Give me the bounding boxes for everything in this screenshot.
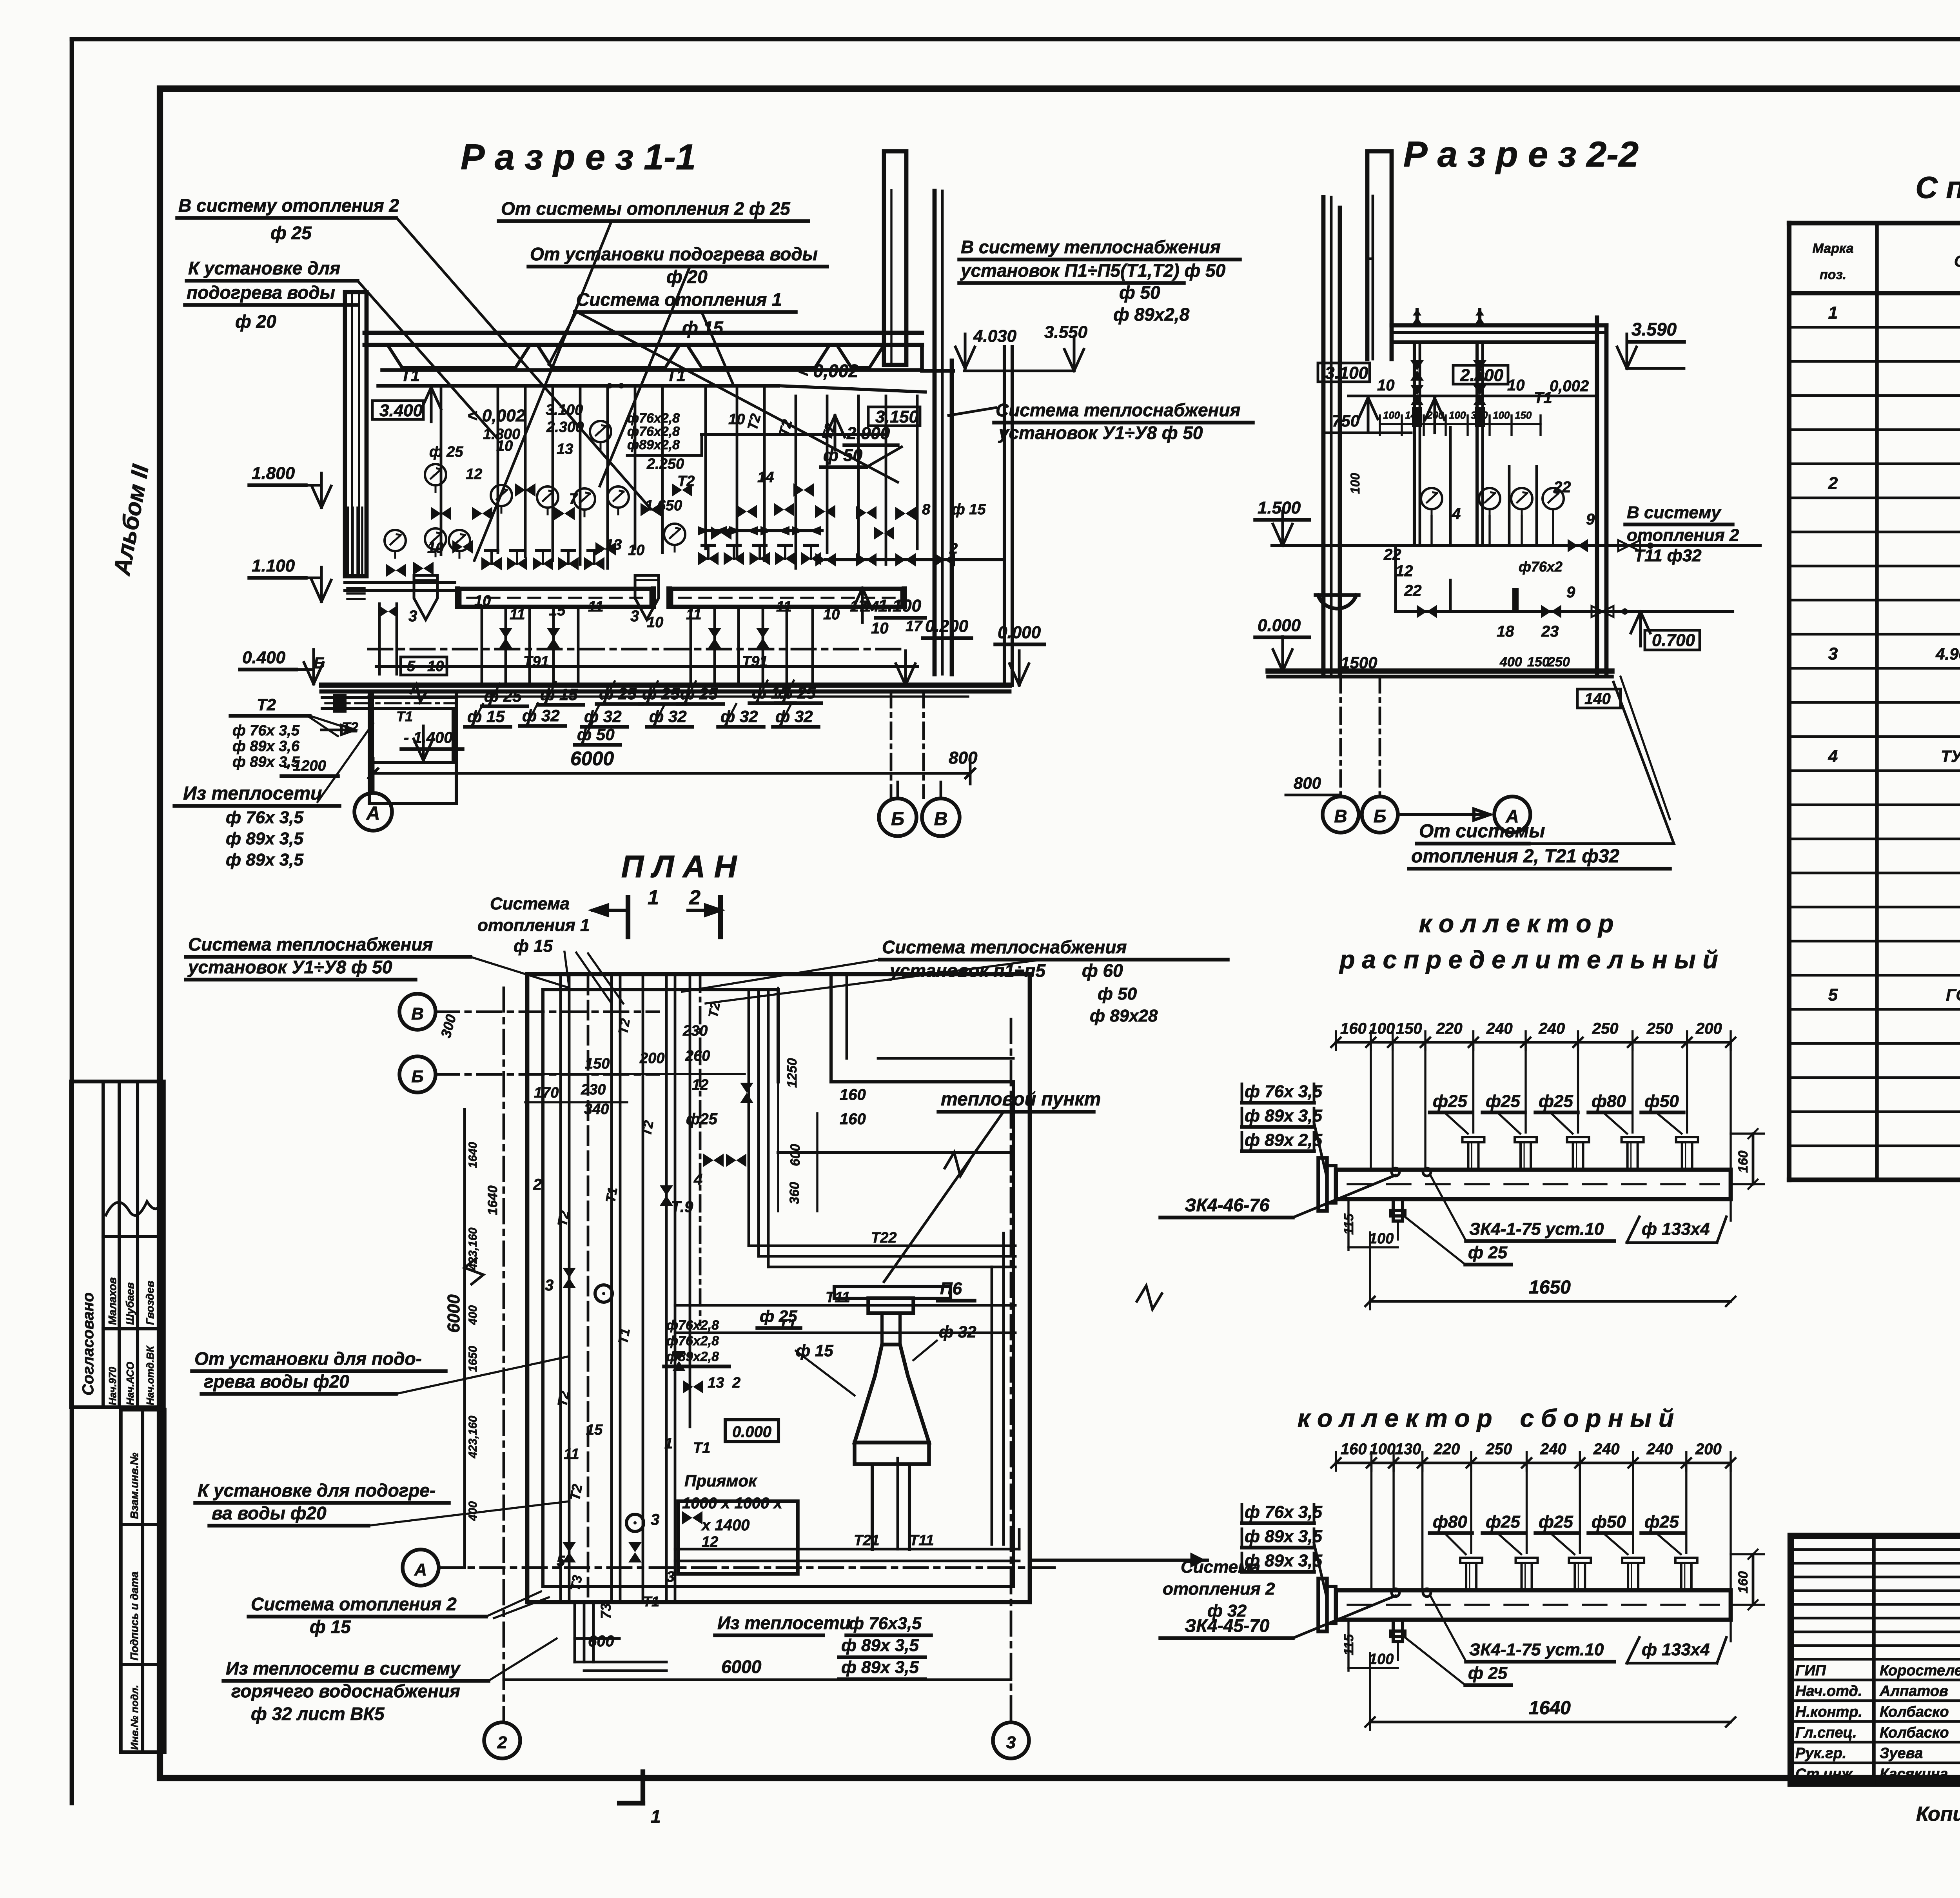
svg-text:ф 76х 3,5: ф 76х 3,5 [226, 808, 303, 827]
svg-text:14: 14 [757, 469, 774, 486]
svg-text:240: 240 [1540, 1441, 1566, 1458]
svg-text:ф 89х2,8: ф 89х2,8 [1113, 304, 1190, 325]
svg-text:ЗК4-45-70: ЗК4-45-70 [1185, 1615, 1270, 1636]
plan bottom exit pipes [575, 1602, 931, 1679]
collector nozzle [1622, 1558, 1644, 1590]
svg-text:230: 230 [581, 1081, 606, 1098]
svg-text:Т11 ф32: Т11 ф32 [1634, 546, 1702, 565]
svg-text:423,160: 423,160 [466, 1415, 479, 1459]
collector nozzle [1460, 1558, 1482, 1590]
valve [472, 507, 492, 520]
svg-text:2: 2 [949, 541, 958, 557]
svg-text:250: 250 [1646, 1020, 1673, 1037]
svg-text:220: 220 [1433, 1441, 1460, 1458]
valve [507, 550, 527, 570]
pressure gauge [425, 464, 446, 492]
svg-text:12: 12 [692, 1077, 708, 1093]
svg-text:ф25: ф25 [1486, 1512, 1520, 1531]
svg-text:1: 1 [1828, 303, 1838, 322]
left inlet pipes [345, 577, 455, 674]
svg-text:73: 73 [598, 1603, 614, 1619]
svg-text:100: 100 [1369, 1651, 1394, 1668]
svg-text:установок У1÷У8 ф 50: установок У1÷У8 ф 50 [187, 957, 392, 977]
svg-text:Взам.инв.№: Взам.инв.№ [128, 1453, 140, 1519]
svg-text:Гл.спец.: Гл.спец. [1795, 1724, 1857, 1741]
svg-text:1650: 1650 [466, 1346, 479, 1372]
valve [856, 553, 877, 566]
pipe header T1 [378, 366, 925, 392]
svg-text:250: 250 [1547, 655, 1570, 670]
axis bubbles section 1-1 [354, 691, 960, 836]
svg-text:Алпатов: Алпатов [1879, 1683, 1948, 1700]
valve row upper [386, 483, 955, 577]
svg-text:ф 20: ф 20 [235, 311, 276, 332]
svg-text:0.700: 0.700 [1652, 631, 1695, 650]
svg-text:ф76х2,8: ф76х2,8 [627, 424, 680, 439]
valve [724, 545, 744, 565]
valve [641, 503, 661, 516]
svg-text:160: 160 [840, 1110, 866, 1128]
svg-text:С п е ц и ф и к а ц и я: С п е ц и ф и к а ц и я [1915, 170, 1960, 205]
title block frame [1791, 1536, 1960, 1784]
svg-text:3: 3 [408, 608, 417, 625]
svg-text:15: 15 [586, 1422, 603, 1438]
svg-text:Нач.отд.ВК: Нач.отд.ВК [144, 1345, 156, 1405]
bottom pipe labels [465, 680, 821, 745]
svg-text:1.100: 1.100 [252, 556, 295, 575]
plan walls [527, 974, 1030, 1602]
svg-text:ф 89х 3,5: ф 89х 3,5 [226, 829, 303, 848]
svg-text:1.500: 1.500 [1258, 498, 1301, 517]
svg-text:В систему: В систему [1627, 503, 1722, 522]
manifold collectors [455, 586, 907, 609]
gauges [385, 421, 685, 558]
svg-text:2: 2 [497, 1733, 507, 1752]
plan vertical pipe bundle [561, 976, 700, 1600]
svg-text:ф 76х3,5: ф 76х3,5 [849, 1614, 922, 1633]
svg-text:Т1: Т1 [1534, 389, 1552, 406]
svg-text:160: 160 [1340, 1020, 1367, 1037]
valve [874, 526, 894, 540]
svg-text:Т2: Т2 [567, 1483, 586, 1502]
collector sborny [1331, 1441, 1735, 1590]
svg-text:17: 17 [906, 618, 923, 635]
svg-text:Р а з р е з 1-1: Р а з р е з 1-1 [461, 137, 696, 177]
svg-text:ф76х2,8: ф76х2,8 [627, 411, 680, 426]
pressure gauge [1511, 488, 1532, 516]
right level dims [821, 407, 1044, 685]
valve [481, 550, 502, 570]
svg-text:отопления 2, Т21 ф32: отопления 2, Т21 ф32 [1411, 846, 1619, 867]
svg-text:250: 250 [1485, 1441, 1512, 1458]
svg-text:Шубаев: Шубаев [124, 1282, 136, 1325]
svg-text:отопления 2: отопления 2 [1627, 526, 1739, 545]
svg-text:Обозначение: Обозначение [1954, 253, 1960, 270]
svg-text:5: 5 [407, 658, 416, 675]
svg-text:подогрева воды: подогрева воды [187, 282, 335, 303]
svg-text:10: 10 [647, 614, 663, 631]
svg-text:6000: 6000 [444, 1294, 463, 1333]
svg-text:3: 3 [630, 608, 639, 625]
svg-text:ф 50: ф 50 [823, 446, 863, 465]
svg-text:1: 1 [648, 886, 659, 909]
svg-text:Нач.970: Нач.970 [107, 1366, 118, 1405]
svg-text:0.000: 0.000 [1258, 616, 1301, 635]
svg-text:0.000: 0.000 [998, 623, 1041, 642]
svg-text:1000 х 1000 х: 1000 х 1000 х [682, 1495, 783, 1512]
svg-text:ф50: ф50 [1592, 1512, 1626, 1531]
svg-text:150: 150 [1515, 409, 1532, 421]
svg-text:В систему теплоснабжения: В систему теплоснабжения [961, 237, 1221, 257]
svg-text:ЗК4-1-75 уст.10: ЗК4-1-75 уст.10 [1469, 1640, 1604, 1659]
svg-text:ф76х2,8: ф76х2,8 [666, 1318, 719, 1333]
underground pipe dashdot [368, 648, 902, 651]
svg-text:600: 600 [588, 1633, 614, 1650]
T2 pipe stack label [230, 695, 341, 776]
svg-text:Согласовано: Согласовано [80, 1292, 97, 1395]
svg-text:Т1: Т1 [603, 1186, 620, 1204]
svg-text:ф76х2,8: ф76х2,8 [666, 1334, 719, 1348]
plan inner labels [485, 988, 976, 1609]
svg-text:ф25: ф25 [1539, 1092, 1573, 1111]
axis bubbles section 2-2 [1286, 677, 1530, 833]
svg-text:ф 89х 3,6: ф 89х 3,6 [232, 738, 300, 755]
valve [815, 505, 835, 518]
valve [895, 553, 916, 566]
svg-text:ф 89х 3,5: ф 89х 3,5 [226, 850, 303, 869]
svg-text:ф 76х 3,5: ф 76х 3,5 [232, 722, 300, 739]
svg-text:ф 50: ф 50 [1119, 282, 1160, 303]
svg-text:ф 25: ф 25 [270, 223, 312, 243]
svg-text:Т11: Т11 [909, 1532, 934, 1549]
svg-text:7: 7 [569, 491, 578, 507]
svg-text:3: 3 [651, 1511, 659, 1528]
svg-text:150: 150 [1527, 655, 1550, 670]
svg-text:р а с п р е д е л и т е л ь н: р а с п р е д е л и т е л ь н ы й [1339, 945, 1718, 974]
right risers pair [826, 347, 1012, 685]
svg-text:ф 89х 3,5: ф 89х 3,5 [1245, 1527, 1322, 1546]
svg-text:ф 133х4: ф 133х4 [1642, 1640, 1710, 1659]
valve [935, 553, 955, 566]
svg-text:2: 2 [1828, 474, 1838, 493]
svg-text:ЗК4-1-75 уст.10: ЗК4-1-75 уст.10 [1469, 1219, 1604, 1239]
svg-text:В: В [411, 1004, 424, 1023]
svg-text:3: 3 [545, 1277, 554, 1294]
svg-text:2: 2 [689, 886, 701, 909]
svg-text:Колбаско: Колбаско [1880, 1704, 1949, 1720]
svg-text:отопления 2: отопления 2 [1163, 1579, 1275, 1599]
svg-text:Т2: Т2 [639, 1120, 656, 1138]
svg-text:Малахов: Малахов [106, 1277, 118, 1325]
svg-text:установок У1÷У8 ф 50: установок У1÷У8 ф 50 [998, 423, 1203, 443]
valve [413, 562, 434, 575]
valve [756, 628, 769, 648]
valve [452, 540, 473, 553]
svg-text:170: 170 [534, 1085, 559, 1101]
pressure gauge [664, 524, 685, 552]
svg-text:П6: П6 [940, 1279, 962, 1298]
svg-text:ТУ26-07-1255-82: ТУ26-07-1255-82 [1941, 747, 1960, 765]
svg-text:ф25: ф25 [1644, 1512, 1679, 1531]
svg-text:В систему отопления 2: В систему отопления 2 [178, 195, 399, 216]
svg-text:3.100: 3.100 [546, 402, 583, 418]
svg-text:В: В [934, 809, 948, 829]
svg-text:К установке для подогре-: К установке для подогре- [198, 1480, 436, 1501]
svg-text:400: 400 [466, 1305, 479, 1325]
spec rows text [1828, 303, 1960, 1174]
valve [698, 545, 719, 565]
svg-text:От системы отопления 2 ф 25: От системы отопления 2 ф 25 [501, 198, 791, 219]
svg-text:6000: 6000 [570, 748, 614, 769]
pressure gauge [425, 528, 446, 556]
zigzag breaks [945, 1152, 970, 1176]
svg-text:0.200: 0.200 [925, 617, 969, 636]
svg-text:100: 100 [1369, 1230, 1394, 1247]
svg-text:Т1: Т1 [693, 1440, 710, 1456]
svg-text:х 1400: х 1400 [701, 1517, 750, 1534]
valve [895, 507, 916, 520]
svg-text:9: 9 [1586, 511, 1595, 528]
svg-text:ф25: ф25 [1539, 1512, 1573, 1531]
valve [499, 628, 512, 648]
svg-text:13: 13 [708, 1375, 724, 1391]
svg-text:< 0,002: < 0,002 [467, 406, 526, 425]
svg-text:160: 160 [1736, 1571, 1751, 1593]
svg-text:ф 15: ф 15 [952, 501, 986, 518]
svg-text:1640: 1640 [466, 1142, 479, 1168]
svg-text:340: 340 [584, 1101, 609, 1118]
svg-text:Гвоздев: Гвоздев [144, 1281, 156, 1325]
svg-text:3.400: 3.400 [379, 401, 423, 420]
svg-text:Коростелев: Коростелев [1880, 1662, 1960, 1679]
svg-text:ф 89х 3,5: ф 89х 3,5 [1245, 1551, 1322, 1570]
svg-text:12: 12 [702, 1534, 718, 1550]
svg-text:ф50: ф50 [1644, 1092, 1679, 1111]
svg-text:200: 200 [1426, 409, 1444, 421]
svg-text:160: 160 [1341, 1441, 1367, 1458]
signature rows [1791, 1658, 1960, 1782]
collector nozzle [1516, 1558, 1538, 1590]
svg-text:1640: 1640 [485, 1185, 500, 1215]
svg-text:ф 15: ф 15 [310, 1617, 351, 1637]
svg-text:3: 3 [1006, 1733, 1016, 1752]
svg-text:1.100: 1.100 [878, 596, 922, 615]
svg-text:4: 4 [1828, 746, 1838, 766]
svg-text:10: 10 [496, 438, 513, 454]
svg-text:ф 25: ф 25 [760, 1307, 797, 1325]
valve [386, 564, 406, 577]
pressure gauge [491, 485, 512, 513]
svg-text:В: В [1334, 806, 1347, 826]
svg-text:Б: Б [1374, 806, 1387, 826]
svg-text:ф 89х 3,5: ф 89х 3,5 [1245, 1106, 1322, 1125]
svg-text:Приямок: Приямок [684, 1472, 757, 1490]
top-left labels [177, 195, 651, 509]
valve [711, 526, 731, 540]
svg-text:1.800: 1.800 [252, 464, 295, 483]
svg-text:Из теплосети: Из теплосети [717, 1613, 851, 1633]
svg-text:Подпись и дата: Подпись и дата [128, 1571, 140, 1660]
collector nozzle [1622, 1137, 1644, 1170]
svg-text:11: 11 [686, 606, 701, 623]
svg-text:2.250: 2.250 [646, 456, 684, 472]
svg-text:240: 240 [1646, 1441, 1673, 1458]
svg-text:140: 140 [1584, 690, 1611, 708]
svg-text:10: 10 [1507, 377, 1525, 394]
svg-text:< 0,002: < 0,002 [798, 361, 858, 381]
svg-text:10: 10 [427, 540, 444, 556]
svg-text:800: 800 [1294, 774, 1321, 792]
svg-text:160: 160 [840, 1086, 866, 1103]
valve [554, 507, 575, 520]
pit (priyamok) [678, 1472, 798, 1574]
heating net entry pipes [321, 684, 455, 735]
gauges section 2-2 [1421, 488, 1564, 546]
pressure gauge [608, 486, 629, 514]
bottom dimension 6000 [368, 748, 978, 798]
svg-text:200: 200 [1695, 1020, 1722, 1037]
svg-text:1: 1 [651, 1806, 661, 1827]
svg-text:11: 11 [588, 599, 603, 615]
svg-text:ф 15: ф 15 [514, 936, 553, 956]
svg-text:От установки для подо-: От установки для подо- [194, 1348, 422, 1369]
pressure gauge [537, 486, 558, 514]
svg-text:3: 3 [1828, 644, 1838, 663]
risers from header [441, 386, 917, 568]
svg-text:ф89х2,8: ф89х2,8 [627, 437, 680, 452]
svg-text:тепловой пункт: тепловой пункт [941, 1089, 1101, 1110]
svg-text:0,002: 0,002 [1550, 377, 1589, 395]
risers section 2-2 [1410, 309, 1537, 546]
svg-text:ф 15: ф 15 [682, 318, 724, 338]
svg-text:ф 89х 2,5: ф 89х 2,5 [1245, 1130, 1322, 1150]
svg-text:200: 200 [1695, 1441, 1722, 1458]
top-middle labels [474, 198, 898, 561]
svg-text:230: 230 [682, 1023, 708, 1039]
svg-text:Из теплосети: Из теплосети [183, 783, 322, 804]
svg-text:360: 360 [787, 1182, 802, 1204]
manifold small labels [401, 402, 986, 675]
collector nozzle [1569, 1558, 1591, 1590]
svg-text:200: 200 [639, 1050, 664, 1067]
svg-text:22: 22 [1383, 546, 1401, 563]
left level dims [240, 387, 441, 684]
svg-text:600: 600 [788, 1144, 803, 1166]
svg-text:Копировал: Оя—: Копировал: Оя— [1916, 1803, 1960, 1825]
svg-text:ф25: ф25 [686, 1110, 718, 1128]
svg-text:10: 10 [474, 593, 491, 609]
svg-text:ф 76х 3,5: ф 76х 3,5 [1245, 1502, 1322, 1522]
svg-text:Т3: Т3 [568, 1574, 585, 1592]
section 1-1 building structure [321, 151, 1009, 804]
svg-text:100: 100 [1369, 1441, 1396, 1458]
svg-text:360: 360 [1471, 409, 1488, 421]
svg-text:ф 50: ф 50 [1098, 984, 1137, 1003]
svg-text:1650: 1650 [1529, 1277, 1571, 1298]
svg-text:Н.контр.: Н.контр. [1795, 1704, 1862, 1720]
entry pit [372, 691, 463, 790]
svg-text:Т1: Т1 [615, 1327, 633, 1345]
plan left outside labels [186, 894, 623, 1724]
svg-text:9: 9 [1566, 584, 1575, 601]
svg-text:4: 4 [1452, 505, 1461, 523]
svg-text:22: 22 [1404, 582, 1422, 599]
svg-text:10: 10 [1377, 377, 1395, 394]
svg-text:к о л л е к т о р: к о л л е к т о р [1419, 909, 1614, 938]
svg-text:ф 25: ф 25 [1468, 1664, 1508, 1683]
svg-text:11: 11 [510, 606, 525, 623]
svg-text:Рук.гр.: Рук.гр. [1795, 1745, 1846, 1762]
svg-text:6000: 6000 [721, 1657, 762, 1677]
svg-text:2.900: 2.900 [846, 424, 890, 443]
svg-text:ф 89х28: ф 89х28 [1090, 1006, 1158, 1025]
svg-text:Т2: Т2 [615, 1018, 633, 1036]
svg-text:750: 750 [1332, 412, 1359, 430]
svg-text:2.900: 2.900 [1460, 366, 1504, 385]
svg-text:Нач.отд.: Нач.отд. [1795, 1683, 1862, 1700]
svg-text:12: 12 [1396, 563, 1413, 580]
plan dim 6000 horizontal [504, 1603, 1011, 1680]
svg-text:100: 100 [1449, 409, 1466, 421]
svg-text:100: 100 [1493, 409, 1510, 421]
spec header [1813, 241, 1960, 282]
plan bottom section mark [619, 1772, 661, 1827]
collector nozzle [1567, 1137, 1589, 1170]
elevator P6 [834, 1279, 975, 1549]
collector nozzle [1463, 1137, 1485, 1170]
svg-text:4.903-10 выпуск8: 4.903-10 выпуск8 [1935, 644, 1960, 663]
svg-text:0.000: 0.000 [732, 1423, 771, 1441]
valve [775, 545, 795, 565]
valve [672, 483, 692, 497]
svg-text:23: 23 [1541, 623, 1559, 640]
svg-text:14: 14 [862, 599, 879, 615]
svg-text:8: 8 [922, 501, 931, 518]
valve [547, 628, 560, 648]
svg-text:Т1: Т1 [401, 366, 420, 385]
lower pipes section 2-2 [1396, 546, 1733, 650]
svg-text:100: 100 [1368, 1020, 1395, 1037]
bottom labels section 2-2 [1409, 677, 1674, 869]
svg-text:ф25: ф25 [1433, 1092, 1467, 1111]
valve [793, 483, 814, 497]
svg-text:4: 4 [693, 1171, 702, 1188]
svg-text:ф 89х 3,5: ф 89х 3,5 [841, 1636, 919, 1655]
svg-text:Т91: Т91 [523, 653, 549, 670]
svg-text:5: 5 [1828, 985, 1838, 1004]
svg-text:А: А [414, 1560, 427, 1579]
svg-text:12: 12 [466, 466, 482, 483]
sump [1316, 595, 1359, 609]
svg-text:Нач.АСО: Нач.АСО [124, 1362, 136, 1405]
valve [708, 628, 721, 648]
svg-text:ф 25: ф 25 [1468, 1243, 1508, 1262]
svg-text:Т2: Т2 [706, 1001, 723, 1019]
section 2-2 structure [1268, 151, 1612, 677]
svg-text:грева воды ф20: грева воды ф20 [204, 1371, 349, 1392]
approval table [71, 1081, 164, 1407]
valve [584, 550, 604, 570]
svg-text:Т.9: Т.9 [671, 1198, 693, 1216]
plan section marks top [593, 886, 720, 937]
valve [533, 550, 553, 570]
svg-text:к о л л е к т о р с б о р н: к о л л е к т о р с б о р н ы й [1298, 1404, 1674, 1432]
svg-text:Т2: Т2 [257, 695, 276, 714]
svg-text:ф25: ф25 [1486, 1092, 1520, 1111]
dims section 2-2 [1255, 319, 1684, 708]
plan 0.000 box [725, 1420, 779, 1442]
plan right outside labels [682, 937, 1228, 1282]
